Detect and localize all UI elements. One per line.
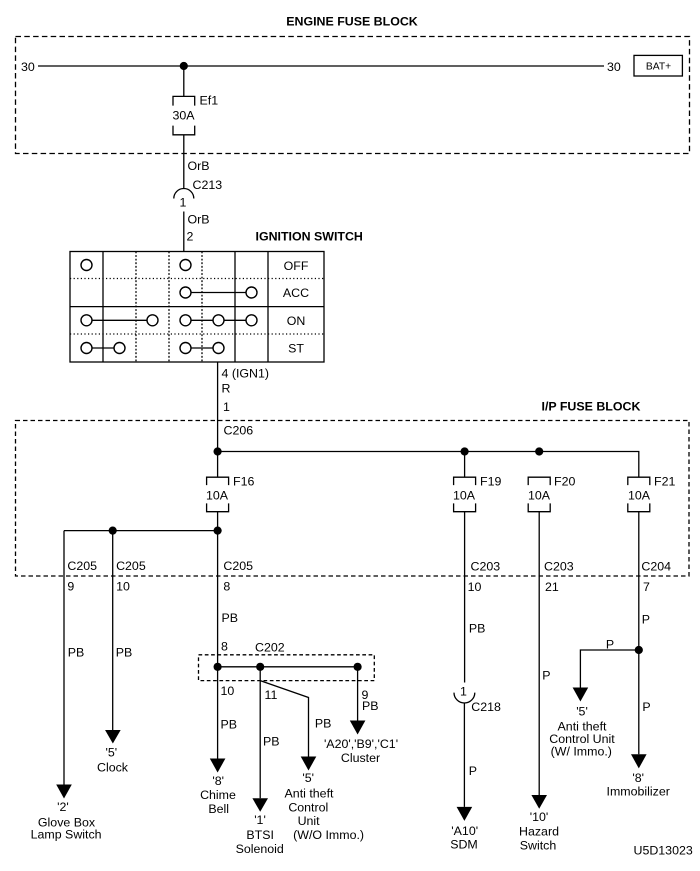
table row line solid <box>70 306 324 308</box>
svg-text:OrB: OrB <box>188 213 210 227</box>
svg-text:8: 8 <box>221 640 228 654</box>
svg-text:Clock: Clock <box>97 761 129 775</box>
connector C218 pin 1 <box>454 685 501 715</box>
node at F20 <box>535 447 543 455</box>
svg-text:PB: PB <box>222 611 239 625</box>
svg-text:ENGINE FUSE BLOCK: ENGINE FUSE BLOCK <box>286 15 418 29</box>
table row line dotted <box>70 333 324 335</box>
svg-text:1: 1 <box>223 400 230 414</box>
contact ON col1 <box>81 315 92 326</box>
node immobilizer branch <box>635 646 643 654</box>
wire chime bell 10 PB <box>218 667 237 759</box>
fuse F16 10A <box>206 475 254 512</box>
wire anti theft w/o immo PB <box>260 681 331 757</box>
wire F19 drop <box>464 452 466 478</box>
svg-text:F21: F21 <box>654 475 675 489</box>
engine fuse block dashed border <box>16 37 690 154</box>
svg-text:PB: PB <box>221 718 238 732</box>
arrow to SDM <box>457 807 473 821</box>
svg-text:8: 8 <box>223 580 230 594</box>
svg-text:C205: C205 <box>223 559 253 573</box>
svg-text:OrB: OrB <box>188 159 210 173</box>
svg-text:Immobilizer: Immobilizer <box>607 785 670 799</box>
svg-text:Chime: Chime <box>200 788 236 802</box>
svg-text:Control: Control <box>288 801 328 815</box>
contact link ON row right <box>186 319 252 321</box>
svg-text:(W/O Immo.): (W/O Immo.) <box>293 828 364 842</box>
contact ON col3 <box>147 315 158 326</box>
wire F19 to C218 PB <box>465 512 486 683</box>
svg-text:PB: PB <box>116 646 133 660</box>
svg-text:Ef1: Ef1 <box>200 94 219 108</box>
contact link ON row left <box>87 319 153 321</box>
svg-text:PB: PB <box>263 735 280 749</box>
label anti theft control unit w/o immo <box>285 771 364 842</box>
svg-text:F20: F20 <box>554 475 575 489</box>
contact ON col6 <box>246 315 257 326</box>
wire OrB <box>184 135 210 189</box>
svg-text:P: P <box>642 700 650 714</box>
svg-text:C203: C203 <box>471 560 501 574</box>
node C202 pin 10 <box>214 663 222 671</box>
svg-text:C204: C204 <box>641 560 671 574</box>
wire bus to fuses <box>218 452 639 478</box>
svg-text:21: 21 <box>545 580 559 594</box>
label glove box lamp switch <box>31 800 102 842</box>
svg-text:IGNITION SWITCH: IGNITION SWITCH <box>256 230 363 244</box>
svg-text:'10': '10' <box>530 810 549 824</box>
connector C203 pin 10 <box>468 560 501 595</box>
svg-text:30A: 30A <box>173 109 196 123</box>
svg-text:C203: C203 <box>544 560 574 574</box>
svg-text:Cluster: Cluster <box>341 751 380 765</box>
ignition switch table frame <box>70 252 324 363</box>
wire bus inside C202 <box>218 666 358 668</box>
svg-text:'A10': 'A10' <box>451 824 478 838</box>
contact ST col2 <box>114 343 125 354</box>
svg-text:PB: PB <box>68 646 85 660</box>
svg-text:30: 30 <box>607 60 621 74</box>
svg-text:1: 1 <box>180 196 187 210</box>
contact ACC col4 <box>180 287 191 298</box>
node C202 pin 9 <box>354 663 362 671</box>
svg-text:Anti theft: Anti theft <box>285 787 334 801</box>
table row line dotted <box>70 278 324 280</box>
node C202 pin 11 <box>256 663 264 671</box>
svg-text:Solenoid: Solenoid <box>236 842 284 856</box>
svg-text:C205: C205 <box>67 559 97 573</box>
label anti theft control unit w immo <box>549 705 615 759</box>
node at F19 <box>461 447 469 455</box>
label chime bell <box>200 774 236 816</box>
connector C203 pin 21 <box>544 560 574 595</box>
wire circuit 30 horizontal <box>38 65 604 67</box>
svg-text:'8': '8' <box>632 771 644 785</box>
contact ACC col6 <box>246 287 257 298</box>
svg-text:'A20','B9','C1': 'A20','B9','C1' <box>324 737 398 751</box>
svg-text:10: 10 <box>116 580 130 594</box>
svg-text:BTSI: BTSI <box>246 828 274 842</box>
node <box>109 527 117 535</box>
arrow to anti theft w immo <box>573 688 589 702</box>
svg-text:BAT+: BAT+ <box>646 62 671 73</box>
svg-text:10A: 10A <box>206 489 229 503</box>
contact ST col5 <box>213 343 224 354</box>
wire F16 to junction <box>217 512 219 531</box>
svg-text:'1': '1' <box>254 813 266 827</box>
svg-text:Bell: Bell <box>208 802 229 816</box>
connector C202 <box>199 641 375 681</box>
contact ST col4 <box>180 343 191 354</box>
wire chime branch <box>217 531 219 667</box>
svg-text:PB: PB <box>362 699 379 713</box>
contact ST col1 <box>81 343 92 354</box>
contact OFF col1 <box>81 260 92 271</box>
svg-text:30: 30 <box>21 60 35 74</box>
svg-text:SDM: SDM <box>450 838 478 852</box>
svg-text:Switch: Switch <box>520 839 557 853</box>
svg-text:ACC: ACC <box>283 286 309 300</box>
wire <box>183 66 185 96</box>
node junction at fuse Ef1 <box>180 62 188 70</box>
wire clock branch PB <box>113 531 133 730</box>
svg-text:C206: C206 <box>224 424 254 438</box>
wire F20 to hazard switch P <box>539 512 550 795</box>
svg-text:P: P <box>606 638 614 652</box>
svg-text:Unit: Unit <box>298 814 321 828</box>
svg-text:F19: F19 <box>480 475 501 489</box>
connector C213 pin 1 <box>174 178 222 210</box>
svg-text:'5': '5' <box>302 771 314 785</box>
svg-text:1: 1 <box>460 685 467 699</box>
wire branch left <box>64 530 218 532</box>
svg-text:C205: C205 <box>116 559 146 573</box>
svg-text:10: 10 <box>468 580 482 594</box>
svg-text:C213: C213 <box>193 178 223 192</box>
svg-text:P: P <box>642 613 650 627</box>
svg-text:P: P <box>469 764 477 778</box>
svg-text:10A: 10A <box>628 489 651 503</box>
wire F21 to immobilizer P P <box>639 512 651 755</box>
arrow to immobilizer <box>631 754 647 768</box>
wire PB pin 8 above C202 <box>221 611 238 654</box>
svg-text:'5': '5' <box>576 705 588 719</box>
svg-text:C202: C202 <box>255 641 285 655</box>
table column line solid <box>234 252 236 363</box>
wire to SDM P <box>464 703 477 807</box>
contact link ST row right <box>186 347 219 349</box>
svg-text:11: 11 <box>265 688 278 702</box>
svg-text:10A: 10A <box>453 489 476 503</box>
svg-text:'5': '5' <box>105 746 117 760</box>
contact ON col4 <box>180 315 191 326</box>
svg-text:7: 7 <box>643 580 650 594</box>
node at F16 <box>214 447 222 455</box>
wire cluster 9 PB <box>358 667 379 721</box>
contact OFF col4 <box>180 260 191 271</box>
contact link ACC row <box>186 292 252 294</box>
arrow to anti theft w/o immo <box>301 757 317 771</box>
svg-text:Hazard: Hazard <box>519 825 559 839</box>
svg-text:4 (IGN1): 4 (IGN1) <box>222 367 270 381</box>
svg-text:Lamp Switch: Lamp Switch <box>31 828 102 842</box>
svg-text:'8': '8' <box>212 774 224 788</box>
contact link ST row left <box>87 347 120 349</box>
label hazard switch <box>519 810 559 853</box>
svg-text:PB: PB <box>469 622 486 636</box>
wire anti theft w immo branch P <box>580 638 638 688</box>
svg-text:P: P <box>542 669 550 683</box>
svg-text:PB: PB <box>315 717 332 731</box>
connector C205 pin 9 <box>67 559 97 594</box>
fuse F20 10A <box>528 475 575 512</box>
table column line solid <box>102 252 104 363</box>
svg-text:OFF: OFF <box>284 259 309 273</box>
arrow to glove box lamp switch <box>56 785 72 799</box>
arrow to chime bell <box>210 759 226 773</box>
BAT+ box <box>634 55 682 76</box>
arrow to hazard switch <box>531 795 547 809</box>
fuse F21 10A <box>628 475 676 512</box>
fuse Ef1 30A <box>173 94 219 135</box>
wire glove box branch PB <box>64 531 84 785</box>
wire 4 IGN1 R 1 <box>218 362 269 452</box>
label SDM <box>450 824 478 852</box>
svg-text:(W/ Immo.): (W/ Immo.) <box>551 745 612 759</box>
svg-text:R: R <box>222 382 231 396</box>
svg-text:10: 10 <box>221 684 235 698</box>
svg-text:U5D13023: U5D13023 <box>634 844 693 858</box>
wire OrB 2 <box>184 212 210 252</box>
arrow to BTSI solenoid <box>252 798 268 812</box>
table column line dashed <box>201 252 203 363</box>
table column line dashed <box>168 252 170 363</box>
wire BTSI solenoid 11 PB <box>260 667 279 799</box>
label BTSI solenoid <box>236 813 284 856</box>
table column line solid <box>267 252 269 363</box>
wire <box>217 452 219 478</box>
svg-text:ON: ON <box>287 314 306 328</box>
node <box>214 527 222 535</box>
svg-text:2: 2 <box>187 230 194 244</box>
connector C205 pin 8 <box>223 559 253 594</box>
table column line dashed <box>135 252 137 363</box>
svg-text:C218: C218 <box>471 700 501 714</box>
svg-text:'2': '2' <box>57 800 69 814</box>
connector C205 pin 10 <box>116 559 146 594</box>
I/P fuse block dashed border <box>16 421 690 577</box>
label clock <box>97 746 129 775</box>
label immobilizer <box>607 771 670 799</box>
svg-text:10A: 10A <box>528 489 551 503</box>
svg-text:F16: F16 <box>233 475 254 489</box>
svg-text:ST: ST <box>288 342 304 356</box>
arrow to clock <box>105 730 121 744</box>
svg-text:I/P FUSE BLOCK: I/P FUSE BLOCK <box>542 400 641 414</box>
contact ON col5 <box>213 315 224 326</box>
connector C204 pin 7 <box>641 560 671 595</box>
label cluster <box>324 737 398 765</box>
arrow to cluster <box>350 721 366 735</box>
fuse F19 10A <box>453 475 501 512</box>
svg-text:9: 9 <box>67 580 74 594</box>
